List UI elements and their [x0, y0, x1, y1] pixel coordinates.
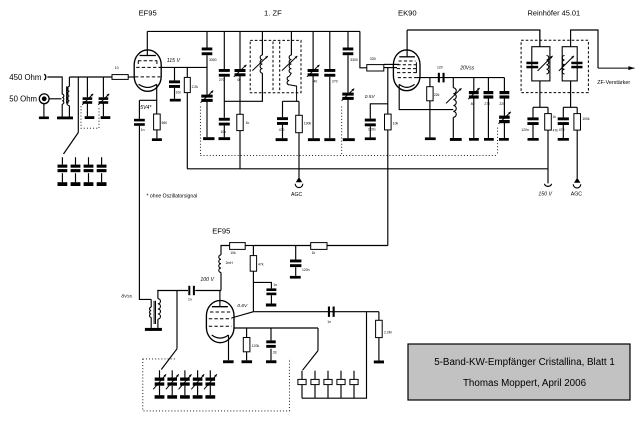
wire V3 g3 line	[234, 327, 318, 329]
wire R11 to C27 junction	[253, 245, 310, 247]
svg-text:33: 33	[273, 350, 277, 354]
svg-text:115 V: 115 V	[167, 58, 181, 64]
wire V1 g2 line to ZF tank	[159, 66, 207, 68]
resistor R12 10k	[230, 243, 246, 250]
filter element 1 capacitor	[526, 62, 538, 64]
filter element 1 coil	[547, 56, 549, 74]
ground under C29	[266, 360, 276, 363]
transformer T1 core	[66, 86, 68, 103]
ground under C27	[290, 276, 301, 279]
svg-text:120n: 120n	[521, 128, 529, 132]
capacitor C20 120 osc grid coupling	[438, 73, 440, 83]
Tr1 secondary lower winding	[287, 76, 289, 84]
svg-text:0.6V: 0.6V	[237, 303, 248, 309]
tube V2 cathode	[399, 84, 414, 87]
capacitor C4 band select	[75, 157, 77, 164]
svg-text:1n: 1n	[273, 283, 277, 287]
dotted gang box antenna trimmers	[81, 106, 99, 128]
ground under C14	[276, 138, 288, 141]
svg-text:47k: 47k	[258, 263, 264, 267]
svg-text:120: 120	[437, 65, 443, 69]
Tr1 secondary winding	[290, 31, 292, 55]
wire R6 to EK90 grid double line	[384, 63, 399, 65]
svg-text:47k: 47k	[553, 128, 559, 132]
tube V3 cathode	[212, 335, 229, 338]
Tr1 primary winding	[261, 31, 263, 55]
wire R13 to grid junction	[252, 271, 254, 312]
ground under L1	[450, 138, 462, 141]
wire V2 osc grid out	[416, 77, 504, 79]
svg-text:10: 10	[115, 66, 119, 70]
capacitor C22 270 osc	[487, 78, 489, 91]
dotted gang drop middle	[341, 107, 343, 156]
svg-text:120n: 120n	[302, 268, 310, 272]
svg-text:EF95: EF95	[139, 8, 157, 17]
trimmer C2 antenna	[102, 77, 104, 97]
ground under C15	[308, 138, 320, 141]
tube V1 cathode network wire	[139, 84, 156, 100]
svg-text:ZF-Verstärker: ZF-Verstärker	[597, 80, 630, 86]
transformer T2 secondary	[157, 291, 159, 299]
transformer T1 secondary winding	[68, 77, 70, 86]
tube V1 grid1 dashed	[135, 76, 160, 78]
ground under C18	[343, 138, 355, 141]
dotted box osc trimmer bank	[143, 358, 176, 360]
capacitor C11 270 tank	[223, 31, 225, 69]
wire R7 down to osc B+ feed	[387, 130, 389, 246]
svg-text:AGC: AGC	[291, 192, 302, 198]
wire R12 to R11	[245, 245, 253, 247]
resistor R3 560 cathode	[156, 100, 158, 114]
wire dotted gang line	[200, 154, 497, 156]
ground under C28	[266, 304, 276, 307]
resistor R5 100k AGC load	[298, 101, 300, 115]
resistor R7 10k screen	[385, 114, 392, 130]
wire osc plate to injection transformer	[157, 290, 188, 292]
ground under C24	[499, 138, 509, 141]
resistor R2 2.2k g2 feed	[186, 67, 188, 77]
band switch S1 arm	[77, 77, 79, 133]
wire trimmer bank feed	[176, 291, 178, 349]
wire R12 to plate coil	[221, 246, 230, 255]
svg-text:1n: 1n	[141, 128, 145, 132]
capacitor C28 1n grid	[253, 282, 271, 288]
wire secondary load junction	[283, 100, 300, 102]
tube V1 plate	[146, 31, 148, 55]
tube V3 EF95 envelope	[206, 301, 234, 343]
resistor R4 1k	[239, 75, 241, 114]
title box	[408, 344, 630, 400]
wire L2 to plate junction	[220, 273, 222, 291]
svg-text:470: 470	[279, 128, 285, 132]
capacitor C17 3300 secondary coupling	[347, 31, 349, 47]
svg-text:8Vss: 8Vss	[121, 294, 132, 300]
ground under transformer T1	[57, 117, 73, 120]
wire padder switch feed	[317, 328, 319, 351]
trimmer C10	[201, 95, 212, 98]
svg-text:10k: 10k	[230, 251, 236, 255]
switch S2b arm	[303, 351, 318, 371]
capacitor C14 470	[282, 101, 284, 117]
svg-text:1k: 1k	[553, 115, 557, 119]
wire V2 cathode down	[399, 84, 453, 109]
wire R10 to AGC terminal	[576, 130, 578, 178]
wire grid resistor to tube V1 g1	[128, 76, 135, 78]
resistor R11 1k	[311, 243, 327, 250]
svg-text:50 Ohm: 50 Ohm	[9, 95, 37, 104]
svg-text:10k: 10k	[393, 122, 399, 126]
trimmer C21 40 osc	[473, 78, 475, 91]
svg-text:1n: 1n	[188, 298, 192, 302]
wire 150V rail	[187, 168, 548, 170]
Tr1 core dashed lines	[272, 42, 274, 93]
tube V3 plate	[219, 291, 221, 307]
tube V2 plate lead	[406, 30, 408, 57]
ground under trimmer C2	[101, 116, 111, 119]
capacitor C31 padder	[301, 371, 303, 380]
svg-text:3300: 3300	[350, 58, 358, 62]
capacitor C26 470 filter term	[562, 107, 564, 117]
ground under R3	[156, 130, 158, 138]
capacitor C35 padder	[353, 371, 355, 380]
wire element1 bottom	[539, 81, 541, 107]
wire filter element1 top	[539, 30, 541, 47]
ground under C16	[324, 138, 335, 141]
dotted gang drop right	[497, 128, 499, 156]
inductor L2 2mH osc plate	[219, 255, 221, 273]
svg-text:2.2M: 2.2M	[384, 331, 392, 335]
capacitor C30 1n output	[328, 307, 330, 317]
ground under R14	[242, 360, 253, 363]
filter element 2 coil	[562, 56, 564, 74]
wire osc output line	[253, 311, 366, 313]
svg-text:3300: 3300	[209, 58, 217, 62]
svg-text:10n: 10n	[176, 90, 182, 94]
wire V3 cathode to ground	[228, 335, 230, 360]
ground under C7	[170, 99, 181, 102]
wire C9 to trimmer C10	[206, 55, 208, 94]
wire B+ rail to EK90 grid resistor	[360, 31, 367, 67]
capacitor C23 220 osc	[503, 78, 505, 91]
output arrow ZF-Verstaerker	[598, 67, 635, 69]
wire oscillator injection vertical	[139, 126, 151, 300]
filter FL1 dashed box	[521, 40, 588, 92]
wire Tr1 secondary return	[289, 73, 291, 76]
tube V1 cathode	[139, 84, 157, 87]
wire 50 Ohm to primary tap	[49, 98, 62, 100]
svg-text:20Vss: 20Vss	[459, 66, 474, 72]
svg-text:330: 330	[370, 57, 376, 61]
ground under C26	[558, 138, 569, 141]
svg-text:AGC: AGC	[571, 192, 582, 198]
svg-text:270: 270	[332, 79, 338, 83]
trimmer C39 osc band	[184, 370, 186, 377]
wire filter element2 top to output	[571, 30, 598, 68]
wire EK90 plate line to filter	[407, 30, 540, 47]
capacitor C25 filter term	[532, 107, 534, 117]
svg-text:1. ZF: 1. ZF	[264, 8, 282, 17]
trimmer C37 osc band	[159, 370, 161, 377]
svg-text:150 V: 150 V	[538, 192, 552, 198]
svg-text:100k: 100k	[582, 117, 590, 121]
dotted gang drop left	[199, 107, 201, 156]
ground under T2	[145, 328, 162, 331]
filter element 2 capacitor	[571, 62, 582, 64]
tube V2 grids dashed	[399, 60, 416, 62]
capacitor C5 band select	[88, 157, 90, 164]
capacitor C33 padder	[327, 371, 329, 380]
svg-text:* ohne Oszillatorsignal: * ohne Oszillatorsignal	[147, 193, 198, 199]
capacitor C36 1n osc coupling	[188, 286, 190, 295]
wire V3 grid diagonal	[232, 312, 254, 318]
transformer T1 primary winding	[62, 94, 64, 104]
resistor R13 47k grid leak	[252, 246, 254, 256]
transformer T2 osc injection	[150, 299, 152, 307]
wire element2 bottom	[570, 81, 572, 107]
resistor R6 330 EK90 grid	[367, 65, 384, 71]
terminal 150V	[544, 184, 551, 187]
filter element 1 arrow	[538, 56, 553, 71]
filter element 2 arrow	[559, 56, 574, 71]
ground under C21	[469, 138, 479, 141]
tube V1 grid2 dashed	[136, 66, 159, 68]
svg-text:120k: 120k	[252, 344, 260, 348]
capacitor C6 band select	[101, 157, 103, 164]
ground under C10	[203, 137, 214, 140]
capacitor C3 band select	[61, 157, 63, 164]
svg-text:22k: 22k	[434, 93, 440, 97]
svg-text:1n: 1n	[327, 320, 331, 324]
trimmer C24 osc padder	[503, 98, 505, 115]
switch S2a arm	[161, 349, 177, 370]
svg-text:Reinhöfer 45.01: Reinhöfer 45.01	[528, 8, 581, 17]
svg-text:0.5V: 0.5V	[365, 94, 376, 100]
svg-text:5-Band-KW-Empfänger Cristallin: 5-Band-KW-Empfänger Cristallina, Blatt 1	[434, 357, 615, 368]
wire antenna bus to grid resistor	[69, 76, 112, 78]
svg-text:5V4*: 5V4*	[140, 105, 152, 111]
ground under 50 Ohm connector	[43, 104, 45, 117]
capacitor C7 10n g2 bypass	[174, 67, 176, 80]
svg-text:560: 560	[162, 121, 168, 125]
trimmer C38 osc band	[171, 370, 173, 377]
resistor R10 100k to AGC	[576, 107, 578, 113]
tube V1 grid3 dashed	[138, 60, 157, 62]
svg-text:120n: 120n	[368, 127, 376, 131]
resistor R14 120k	[246, 328, 248, 338]
ground under V3 cathode	[223, 360, 234, 363]
oscillator coil L1	[452, 78, 454, 88]
svg-text:EF95: EF95	[212, 227, 230, 236]
trimmer C18	[347, 55, 349, 92]
svg-text:100 V: 100 V	[200, 277, 214, 283]
capacitor C8 1n cathode injection	[138, 100, 140, 119]
ground under C25	[528, 138, 539, 141]
wire R8 to ground	[429, 101, 431, 138]
svg-text:1k: 1k	[312, 251, 316, 255]
resistor R15 2.2M	[378, 312, 380, 321]
trimmer C40 osc band	[197, 370, 199, 377]
tube V2 EK90 envelope	[393, 50, 420, 91]
trimmer C41 osc band	[209, 370, 211, 377]
svg-text:450 Ohm: 450 Ohm	[9, 73, 41, 82]
resistor R9 47k to 150V	[547, 107, 549, 113]
ground under trimmer C1	[85, 116, 95, 119]
filter element 2 body	[562, 47, 577, 81]
resistor R8 22k osc grid leak	[429, 78, 431, 87]
svg-text:270: 270	[484, 102, 490, 106]
tube V1 EF95 envelope	[134, 50, 161, 91]
terminal AGC right	[574, 178, 580, 183]
wire R5 to AGC terminal	[298, 133, 300, 178]
svg-text:Thomas Moppert, April 2006: Thomas Moppert, April 2006	[463, 378, 587, 389]
capacitor C16 2700	[329, 31, 331, 69]
tube V3 grids dashed	[210, 311, 230, 313]
svg-text:1k: 1k	[246, 121, 250, 125]
wire Tr1 primary return	[224, 73, 262, 101]
capacitor C12 10n	[223, 77, 225, 118]
ground under R8	[425, 137, 436, 140]
trimmer C1 antenna	[86, 77, 88, 97]
svg-text:10n: 10n	[221, 130, 227, 134]
wire B+ top rail	[147, 30, 360, 32]
svg-text:100k: 100k	[304, 121, 312, 125]
capacitor C34 padder	[340, 371, 342, 380]
terminal AGC left	[296, 177, 302, 182]
ground under C12	[219, 137, 231, 140]
ground under R15	[374, 361, 384, 364]
svg-text:EK90: EK90	[398, 8, 417, 17]
tube V2 screen bracket	[415, 62, 417, 73]
capacitor C27 120n osc decoupling	[295, 246, 297, 260]
wire V2 screen feed	[387, 68, 389, 115]
trimmer C13 40 tank	[239, 31, 241, 69]
ground under C19	[365, 137, 376, 140]
svg-text:40: 40	[314, 79, 318, 83]
wire R9 to 150V terminal	[547, 130, 549, 183]
filter element 1 body	[532, 47, 550, 81]
capacitor C9 3300 plate coupling	[206, 31, 208, 47]
ground under C22	[484, 138, 494, 141]
wire padder bank right side	[302, 312, 367, 399]
resistor R1 10 grid stopper	[112, 75, 128, 80]
svg-text:2.2k: 2.2k	[192, 85, 199, 89]
IF transformer Tr1 dashed box	[250, 40, 301, 92]
capacitor C29 33	[270, 328, 272, 340]
wire R2 to 150V rail	[186, 93, 188, 169]
capacitor C32 padder	[314, 371, 316, 380]
svg-text:2mH: 2mH	[226, 261, 234, 265]
transformer T2 core	[153, 301, 155, 324]
wire 450 Ohm to transformer primary	[47, 77, 62, 94]
trimmer C15 40 secondary tank	[312, 31, 314, 69]
wire R4 to 150V rail	[239, 131, 241, 169]
wire osc B+ feed line	[327, 245, 388, 247]
capacitor C19 120n screen bypass	[370, 104, 388, 119]
